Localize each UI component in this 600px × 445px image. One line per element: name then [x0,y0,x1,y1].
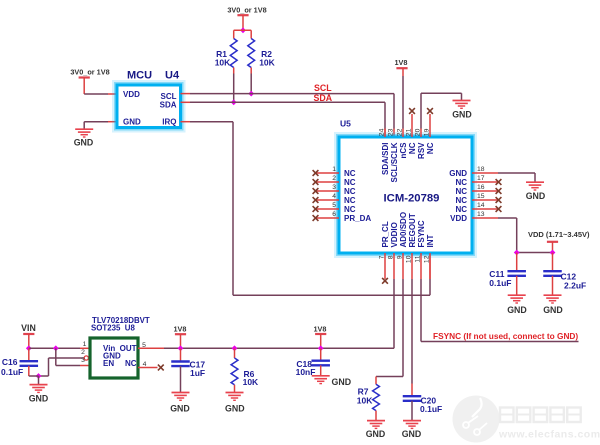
svg-text:18: 18 [477,166,485,173]
svg-text:VDD (1.71~3.45V): VDD (1.71~3.45V) [528,230,590,239]
svg-text:10nF: 10nF [296,367,316,377]
svg-text:3V0_or 1V8: 3V0_or 1V8 [227,5,266,14]
svg-text:1uF: 1uF [190,368,205,378]
svg-text:GND: GND [402,429,422,439]
svg-text:16: 16 [477,184,485,191]
svg-text:10K: 10K [259,58,275,68]
svg-text:U4: U4 [165,70,180,82]
svg-text:SDA: SDA [314,93,333,103]
svg-text:11: 11 [415,255,422,262]
svg-text:PR_DA: PR_DA [344,214,371,223]
svg-text:PR_CL: PR_CL [381,221,390,247]
svg-text:0.1uF: 0.1uF [489,278,511,288]
svg-text:GND: GND [123,118,141,127]
svg-text:VDDIO: VDDIO [390,222,399,247]
svg-text:U5: U5 [340,119,351,129]
svg-text:NC: NC [344,205,356,214]
svg-text:SCL/SCLK: SCL/SCLK [390,142,399,182]
svg-text:REGOUT: REGOUT [408,213,417,247]
svg-text:GND: GND [507,305,527,315]
svg-text:4: 4 [332,193,336,200]
svg-text:NC: NC [344,169,356,178]
svg-text:23: 23 [388,128,395,136]
svg-text:8: 8 [388,255,395,259]
svg-text:10K: 10K [243,377,259,387]
svg-text:2: 2 [332,175,336,182]
svg-text:C16: C16 [2,357,18,367]
svg-text:1V8: 1V8 [174,324,187,333]
svg-text:GND: GND [74,137,94,147]
svg-text:NC: NC [344,178,356,187]
svg-text:NC: NC [344,187,356,196]
svg-text:MCU: MCU [127,70,152,82]
svg-text:SCL: SCL [314,83,332,93]
svg-text:VIN: VIN [21,323,36,333]
svg-text:12: 12 [424,255,431,263]
svg-text:5: 5 [332,202,336,209]
svg-text:3: 3 [81,357,85,364]
svg-text:SDA: SDA [160,101,177,110]
svg-text:NC: NC [455,205,467,214]
svg-text:VDD: VDD [123,90,140,99]
svg-text:1: 1 [332,166,336,173]
svg-text:nCS: nCS [399,142,408,159]
svg-text:NC: NC [455,187,467,196]
svg-text:1: 1 [83,341,87,348]
svg-text:6: 6 [332,211,336,218]
svg-text:GND: GND [543,305,563,315]
svg-text:10K: 10K [357,395,373,405]
svg-text:NC: NC [344,196,356,205]
svg-text:VDD: VDD [450,214,467,223]
svg-text:FSYNC: FSYNC [417,220,426,247]
svg-text:NC: NC [426,142,435,154]
svg-text:EN: EN [103,359,114,368]
svg-text:1V8: 1V8 [395,58,408,67]
svg-text:GND: GND [449,169,467,178]
svg-text:GND: GND [452,110,472,120]
svg-text:0.1uF: 0.1uF [420,404,442,414]
svg-text:10K: 10K [215,58,231,68]
svg-text:SDA/SDI: SDA/SDI [381,143,390,175]
svg-text:10: 10 [406,255,413,263]
svg-text:2.2uF: 2.2uF [564,280,586,290]
svg-text:AD0/SDO: AD0/SDO [399,212,408,248]
svg-text:2: 2 [81,349,85,356]
svg-text:13: 13 [477,211,485,218]
svg-text:GND: GND [225,403,245,413]
svg-text:GND: GND [366,429,386,439]
svg-text:1V8: 1V8 [314,324,327,333]
svg-text:OUT: OUT [120,344,137,353]
svg-text:NC: NC [125,359,137,368]
svg-text:SOT235 U8: SOT235 U8 [91,324,135,333]
svg-text:NC: NC [455,178,467,187]
svg-text:3: 3 [332,184,336,191]
svg-text:3V0_or 1V8: 3V0_or 1V8 [70,68,109,77]
svg-text:GND: GND [526,191,546,201]
svg-text:GND: GND [29,393,49,403]
svg-text:7: 7 [379,255,386,259]
svg-text:14: 14 [477,202,485,209]
svg-text:NC: NC [455,196,467,205]
svg-text:0.1uF: 0.1uF [1,367,23,377]
svg-text:GND: GND [170,403,190,413]
svg-text:15: 15 [477,193,485,200]
svg-text:ICM-20789: ICM-20789 [384,193,440,205]
svg-text:NC: NC [408,142,417,154]
svg-text:GND: GND [332,377,352,387]
svg-text:RSV: RSV [417,142,426,159]
svg-text:www.elecfans.com: www.elecfans.com [498,429,600,441]
svg-text:FSYNC (If not used, connect to: FSYNC (If not used, connect to GND) [433,331,578,341]
svg-text:9: 9 [397,255,404,259]
svg-text:IRQ: IRQ [162,118,176,127]
svg-text:17: 17 [477,175,485,182]
svg-text:INT: INT [426,235,435,248]
